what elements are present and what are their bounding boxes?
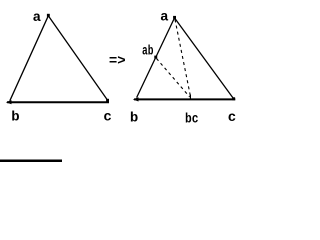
- right triangle: vertex dot c: [232, 97, 235, 100]
- right triangle: tick at bc: [189, 95, 191, 100]
- right triangle: point dot ab on edge: [154, 56, 157, 59]
- right triangle: edge a-c (wire): [175, 18, 234, 99]
- dashed line a to bc: [175, 20, 190, 97]
- left triangle: base b-c (wire): [7, 101, 109, 103]
- left triangle: vertex dot c: [106, 99, 109, 102]
- svg-text:b: b: [11, 110, 19, 126]
- svg-text:c: c: [228, 110, 236, 126]
- svg-text:c: c: [103, 109, 111, 125]
- svg-text:a: a: [160, 10, 169, 26]
- svg-text:ab: ab: [142, 44, 154, 60]
- svg-text:b: b: [130, 111, 138, 127]
- left triangle: edge b-a (wire): [10, 16, 49, 101]
- left triangle: edge a-c (wire): [48, 16, 107, 100]
- left triangle: arrowhead at b: [6, 100, 12, 104]
- svg-text:a: a: [33, 10, 42, 26]
- svg-text:=>: =>: [109, 54, 126, 70]
- right triangle: vertex dot a: [173, 16, 176, 19]
- right triangle: arrowhead at b: [133, 97, 139, 101]
- right triangle: edge b-a (wire): [137, 18, 175, 98]
- right triangle: base b-c (wire): [134, 98, 235, 100]
- left triangle: vertex dot a: [47, 14, 50, 17]
- dashed line ab to bc: [157, 59, 190, 97]
- partial horizontal rule at bottom left: [0, 160, 62, 163]
- svg-text:bc: bc: [185, 112, 199, 128]
